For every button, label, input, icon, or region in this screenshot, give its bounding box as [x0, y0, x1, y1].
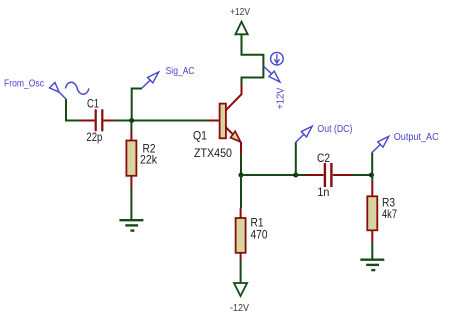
- svg-text:Sig_AC: Sig_AC: [166, 66, 195, 77]
- resistor R2 bottom pin: [130, 176, 132, 188]
- node junction C: [369, 173, 374, 178]
- resistor R3 bottom pin: [371, 230, 373, 242]
- capacitor C1 right pin: [103, 120, 113, 122]
- svg-text:4k7: 4k7: [382, 207, 397, 221]
- wire junction A to junction B: [241, 174, 296, 176]
- wire from generator down to C1: [66, 99, 79, 121]
- ground under R2: [119, 219, 143, 221]
- wire R1 to -12V arrow: [240, 261, 242, 284]
- wire base node down to R2: [130, 121, 132, 131]
- svg-text:470: 470: [251, 228, 268, 242]
- probe Out (DC) arrow: [296, 134, 304, 142]
- svg-text:C2: C2: [317, 151, 330, 165]
- resistor R3 body: [367, 196, 377, 230]
- wire C2 to junction C: [352, 174, 373, 176]
- wire emitter to junction A: [240, 156, 242, 175]
- svg-text:Out (DC): Out (DC): [317, 124, 352, 135]
- svg-text:22k: 22k: [140, 152, 158, 166]
- power +12V arrow symbol: [235, 22, 247, 35]
- svg-text:22p: 22p: [86, 130, 102, 144]
- resistor R2 top pin: [130, 131, 132, 141]
- capacitor C2 plates: [324, 163, 326, 187]
- probe Sig_AC arrow: [142, 80, 150, 88]
- node junction B: [293, 173, 298, 178]
- probe Output_AC arrow: [372, 145, 380, 153]
- capacitor C1 plates: [95, 109, 97, 131]
- wire junction A down to R1: [240, 175, 242, 208]
- svg-text:+12V: +12V: [230, 6, 250, 18]
- wire junction C up to Output_AC: [371, 152, 373, 175]
- capacitor C2 left pin: [306, 174, 324, 176]
- wire collector jog: [242, 34, 264, 84]
- node base junction: [129, 118, 134, 123]
- capacitor C1 left pin: [79, 120, 95, 122]
- transistor Q1 base pin: [208, 120, 220, 122]
- capacitor C2 right pin: [333, 174, 352, 176]
- svg-text:-12V: -12V: [230, 302, 249, 314]
- generator From_Osc marker: [59, 92, 66, 99]
- svg-text:Q1: Q1: [193, 129, 207, 143]
- resistor R1 bottom pin: [240, 253, 242, 261]
- generator sine squiggle: [66, 82, 89, 94]
- transistor Q1 emitter lead: [226, 127, 241, 155]
- node junction A: [239, 173, 244, 178]
- svg-text:From_Osc: From_Osc: [4, 79, 44, 90]
- wire junction B up to Out (DC): [295, 142, 297, 175]
- current probe circle inner arrow: [276, 54, 278, 61]
- wire C1 to base node: [113, 120, 207, 122]
- svg-text:C1: C1: [87, 96, 99, 110]
- resistor R2 body: [126, 141, 136, 176]
- resistor R1 body: [236, 218, 246, 253]
- wire junction B to C2: [296, 174, 306, 176]
- transistor Q1 collector lead: [226, 84, 242, 110]
- wire R3 to ground: [371, 242, 373, 260]
- current probe arrow: [263, 66, 272, 74]
- svg-text:ZTX450: ZTX450: [194, 146, 232, 160]
- svg-text:Output_AC: Output_AC: [394, 132, 439, 143]
- current probe circle: [271, 52, 284, 65]
- wire junction C down to R3: [371, 175, 373, 181]
- power -12V arrow symbol: [234, 283, 247, 296]
- wire R2 to ground: [130, 188, 132, 219]
- wire base node up to Sig_AC: [132, 89, 142, 121]
- transistor Q1 body bar: [220, 104, 226, 139]
- transistor Q1 emitter arrow: [231, 131, 241, 142]
- svg-text:1n: 1n: [317, 185, 329, 199]
- ground under R3: [360, 259, 384, 261]
- svg-text:+12V: +12V: [276, 87, 287, 109]
- resistor R3 top pin: [371, 181, 373, 196]
- resistor R1 top pin: [240, 208, 242, 218]
